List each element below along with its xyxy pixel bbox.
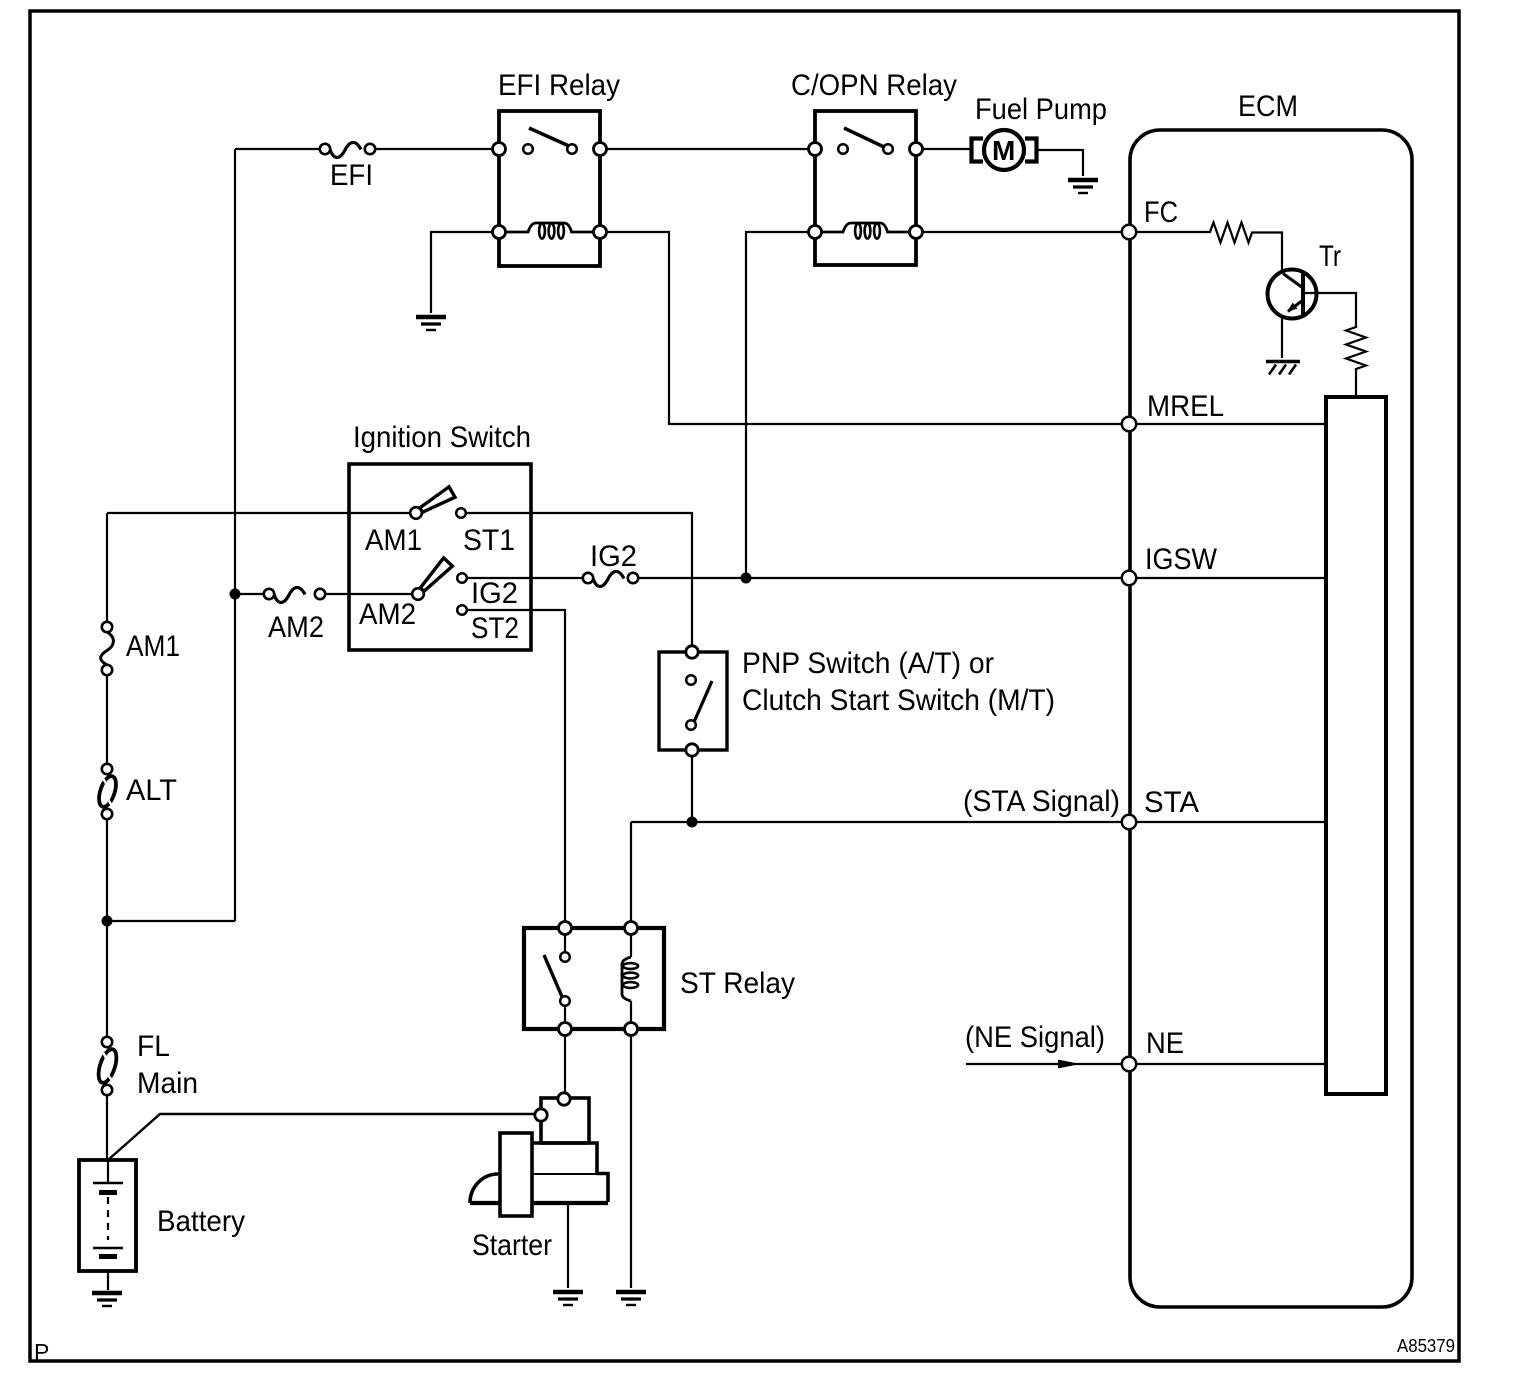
resistor on FC line: [1136, 223, 1282, 271]
fuse EFI: [320, 142, 375, 157]
svg-text:(STA Signal): (STA Signal): [963, 785, 1120, 818]
svg-text:IG2: IG2: [590, 540, 637, 573]
wire NE signal arrow line: [966, 1063, 1122, 1065]
fuse ALT: [96, 764, 120, 819]
svg-text:ST2: ST2: [471, 612, 519, 645]
transistor ground: [1266, 362, 1300, 375]
svg-text:EFI: EFI: [330, 159, 373, 192]
svg-text:PNP Switch (A/T) or: PNP Switch (A/T) or: [742, 647, 994, 680]
wire C/OPN relay to fuel pump: [922, 148, 971, 150]
svg-text:Ignition Switch: Ignition Switch: [353, 421, 531, 454]
wire C/OPN relay coil to FC pin: [922, 231, 1122, 233]
wire IG2 terminal to IG2 fuse: [467, 577, 583, 579]
wire IGSW pin to ECM block: [1136, 577, 1326, 579]
battery: [79, 1160, 136, 1271]
wire main vertical battery to EFI fuse: [234, 149, 236, 921]
svg-text:P: P: [34, 1339, 49, 1365]
wire STA row: [631, 821, 1122, 823]
node ECM pin STA: [1122, 815, 1136, 829]
fuse IG2: [583, 571, 638, 586]
wire ST1 to PNP switch: [466, 513, 692, 645]
ground EFI relay: [416, 317, 446, 330]
svg-text:ALT: ALT: [126, 774, 177, 807]
transistor Tr: [1268, 270, 1317, 359]
relay ST Relay: [524, 922, 664, 1036]
wire ST relay to starter solenoid: [564, 1036, 566, 1093]
wire left bus upper: [106, 513, 108, 622]
wire AM2 fuse to ignition switch: [325, 593, 412, 595]
svg-text:Tr: Tr: [1319, 240, 1341, 273]
svg-text:(NE Signal): (NE Signal): [965, 1021, 1105, 1054]
svg-text:M: M: [992, 135, 1015, 166]
svg-text:Battery: Battery: [157, 1205, 245, 1238]
starter: [470, 1093, 608, 1216]
svg-text:FL: FL: [137, 1030, 170, 1063]
svg-text:NE: NE: [1146, 1027, 1184, 1060]
fuse AM1: [101, 622, 114, 675]
wire EFI fuse to EFI relay: [375, 148, 492, 150]
svg-text:MREL: MREL: [1147, 390, 1224, 423]
ECM outline: [1130, 130, 1412, 1307]
svg-text:Starter: Starter: [472, 1229, 552, 1262]
svg-text:Main: Main: [137, 1067, 198, 1100]
wire STA node to ST relay coil: [630, 822, 632, 922]
svg-text:IGSW: IGSW: [1145, 543, 1218, 576]
svg-text:EFI Relay: EFI Relay: [498, 69, 620, 102]
svg-text:ECM: ECM: [1238, 90, 1298, 123]
svg-text:Clutch Start Switch (M/T): Clutch Start Switch (M/T): [742, 684, 1055, 717]
ground battery: [92, 1293, 122, 1306]
wire AM1 fuse to ALT fuse: [106, 675, 108, 764]
svg-text:AM1: AM1: [126, 630, 180, 663]
node ECM pin FC: [1122, 225, 1136, 239]
NE signal arrowhead: [1058, 1060, 1080, 1069]
node ECM pin IGSW: [1122, 571, 1136, 585]
wire fuel pump to ground: [1036, 150, 1083, 176]
ground ST relay coil: [616, 1292, 646, 1305]
wire AM2 row from junction to fuse: [235, 593, 264, 595]
svg-text:ST1: ST1: [463, 524, 515, 557]
svg-text:FC: FC: [1144, 196, 1178, 229]
svg-text:ST Relay: ST Relay: [680, 967, 795, 1000]
wire EFI relay coil to MREL pin: [600, 232, 1122, 424]
wire ST2 terminal to ST relay: [467, 610, 565, 922]
svg-text:A85379: A85379: [1397, 1336, 1455, 1356]
node junction AM2: [230, 589, 241, 600]
wire EFI relay coil to ground: [431, 232, 499, 313]
ground fuel pump: [1068, 180, 1098, 193]
svg-text:AM2: AM2: [359, 598, 416, 631]
node ECM pin NE: [1122, 1057, 1136, 1071]
wire starter to ground: [567, 1203, 569, 1288]
wire C/OPN relay coil to IGSW node: [746, 232, 815, 578]
wire ALT fuse to junction: [106, 819, 108, 1037]
wire battery bottom to ground: [107, 1257, 109, 1290]
wire FL fuse to battery: [106, 1095, 108, 1160]
switch PNP: [659, 646, 727, 756]
wire EFI relay switch to C/OPN relay switch: [606, 148, 808, 150]
switch Ignition Switch: [349, 464, 531, 650]
wire IG2 fuse to IGSW pin: [638, 577, 1122, 579]
svg-text:AM2: AM2: [268, 611, 324, 644]
node junction IGSW: [741, 573, 752, 584]
resistor Tr to ECM block: [1303, 293, 1366, 397]
wire MREL pin to ECM block: [1136, 423, 1326, 425]
relay C/OPN Relay: [809, 111, 923, 265]
wire junction jog: [107, 920, 235, 922]
svg-text:STA: STA: [1144, 786, 1199, 819]
wire AM1 row: [107, 512, 410, 514]
node ECM pin MREL: [1122, 417, 1136, 431]
motor fuel pump: [972, 130, 1037, 170]
ground starter: [553, 1292, 583, 1305]
fuse FL Main: [95, 1037, 120, 1095]
relay EFI Relay: [493, 111, 607, 266]
wire PNP switch to STA node: [691, 756, 693, 822]
wire battery feed top-left corner to EFI fuse: [235, 148, 319, 150]
svg-text:C/OPN Relay: C/OPN Relay: [791, 69, 957, 102]
wire STA pin to ECM block: [1136, 821, 1326, 823]
node junction STA: [687, 817, 698, 828]
fuse AM2: [264, 587, 325, 602]
svg-text:AM1: AM1: [365, 524, 422, 557]
ECM inner block: [1326, 397, 1386, 1094]
svg-text:Fuel Pump: Fuel Pump: [975, 93, 1107, 126]
wire NE pin to ECM block: [1136, 1063, 1326, 1065]
wire battery to starter: [108, 1114, 534, 1160]
wire ST relay coil to ground: [630, 1036, 632, 1289]
node junction left bus: [102, 916, 113, 927]
svg-text:IG2: IG2: [471, 577, 518, 610]
